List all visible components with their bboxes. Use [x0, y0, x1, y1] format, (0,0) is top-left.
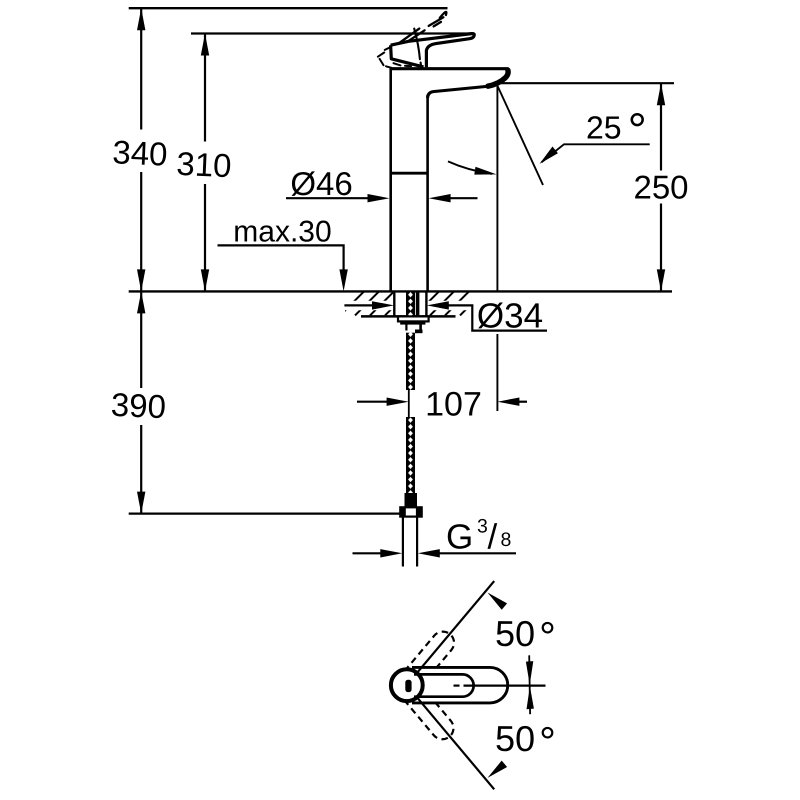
extension line (390 bottom) [129, 512, 401, 514]
mounting nut [400, 321, 425, 324]
svg-text:50°: 50° [495, 718, 556, 765]
extension line (250 top) [496, 82, 674, 84]
faucet lever (solid) [391, 34, 475, 68]
svg-text:310: 310 [176, 145, 233, 184]
hose tube [402, 517, 404, 567]
extension line (solid lever tip, 310) [191, 32, 471, 34]
mounting hole edges [393, 291, 395, 316]
svg-text:Ø34: Ø34 [477, 297, 543, 336]
counter hatching [340, 291, 484, 315]
extension line top (raised lever tip, 340) [129, 7, 448, 9]
hose nut [400, 507, 421, 516]
extension line x=497.4 (spout tip vertical) [496, 86, 498, 292]
svg-text:3: 3 [477, 516, 488, 538]
washer below counter [398, 316, 429, 321]
dashed lever at -50 (lower) [404, 685, 458, 743]
tangent double arrow at axis [528, 655, 531, 714]
25 deg reference line [498, 87, 543, 186]
handle dot [405, 680, 411, 692]
svg-text:107: 107 [425, 386, 482, 424]
top view outer stadium [410, 667, 508, 703]
svg-text:390: 390 [110, 386, 167, 425]
shank center extension (107) [408, 390, 410, 417]
dimension D34 [344, 304, 374, 306]
dimension 250 [660, 83, 662, 291]
svg-text:/: / [488, 518, 498, 557]
50 deg line lower [416, 696, 494, 789]
dimension 310 [204, 34, 206, 292]
svg-text:8: 8 [501, 529, 512, 551]
body joint line [391, 172, 428, 175]
countertop section [129, 290, 672, 292]
top view body circle [391, 669, 423, 701]
threaded shank (below nut) [406, 333, 415, 390]
spout underside [428, 86, 489, 98]
svg-text:250: 250 [633, 169, 688, 206]
top view lever stadium [414, 674, 474, 696]
dimension 340 [140, 8, 142, 291]
supply hose connector block [405, 493, 418, 507]
svg-text:50°: 50° [495, 613, 556, 660]
faucet body [391, 67, 509, 70]
svg-text:G: G [446, 518, 473, 557]
svg-text:Ø46: Ø46 [290, 165, 352, 202]
curved flow arrow [448, 161, 492, 174]
spout tip (beak) [488, 70, 508, 86]
label G 3/8 with arrows [353, 552, 383, 554]
50 deg line upper [416, 581, 494, 674]
svg-text:340: 340 [112, 133, 169, 172]
threaded shank (in hole) [406, 291, 415, 316]
faucet lever raised (dashed) [378, 12, 446, 68]
svg-text:max.30: max.30 [233, 216, 331, 249]
axis line [454, 684, 460, 686]
dimension 107 [357, 401, 389, 403]
dashed lever at +50 (upper) [404, 627, 458, 685]
dimension 390 [140, 291, 142, 513]
